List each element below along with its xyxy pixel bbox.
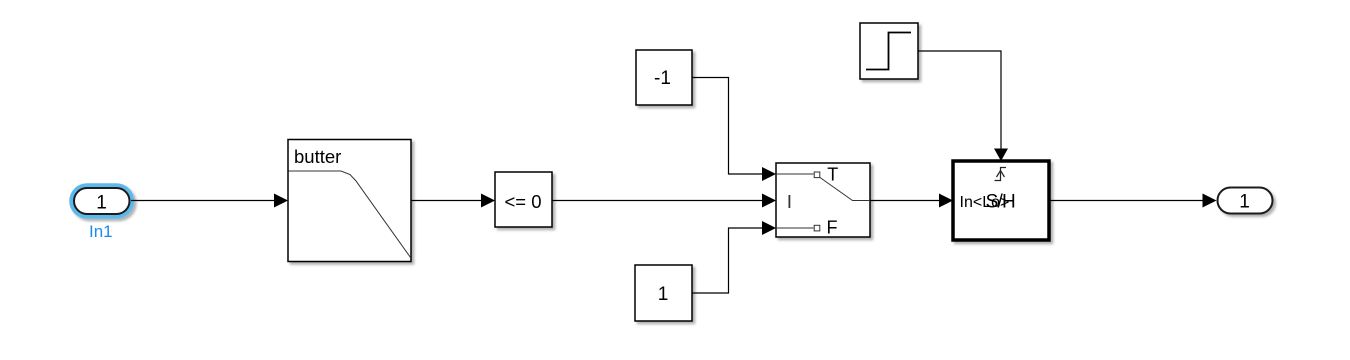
wire In1 to butter [131,194,288,208]
svg-text:butter: butter [294,146,341,167]
compare block <= 0 [495,172,552,227]
step block [860,23,918,79]
constant block -1 [636,50,692,105]
svg-text:<= 0: <= 0 [504,191,541,212]
svg-text:1: 1 [1239,192,1250,213]
svg-text:T: T [827,165,838,185]
wire switch to S/H [870,194,953,208]
wire 1 to switch F input [693,221,777,293]
output port 1 [1218,188,1273,214]
input port In1 (selected, blue halo) [69,183,134,218]
constant block 1 [635,265,692,321]
svg-text:1: 1 [658,284,669,305]
wire -1 to switch T input [693,78,777,182]
wire compare to switch control [552,194,776,208]
svg-text:1: 1 [96,192,107,213]
wire step to S/H trigger [918,51,1008,161]
wire butter to compare [411,194,495,208]
svg-text:In1: In1 [89,222,113,241]
sample and hold block S/H [953,161,1049,240]
wire S/H to Out1 [1049,194,1217,208]
svg-text:S/H: S/H [986,191,1015,212]
switch block [776,163,870,237]
svg-text:-1: -1 [654,68,671,89]
svg-text:F: F [827,217,838,237]
filter block butter [288,140,411,262]
